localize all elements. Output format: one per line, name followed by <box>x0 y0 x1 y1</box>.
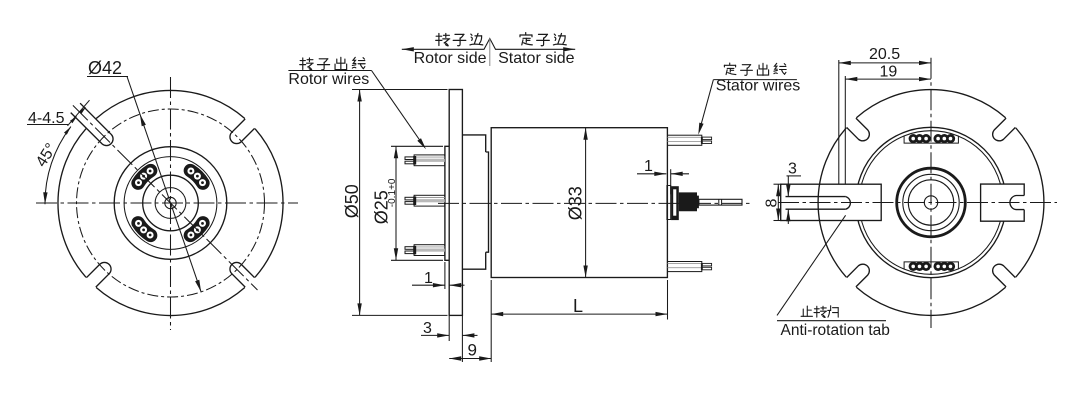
stator body circle &#216;33 <box>856 127 1006 277</box>
svg-text:3: 3 <box>423 320 432 337</box>
label dingzichuxian (stator wires CJK) <box>724 63 735 74</box>
rotor wire terminal group (135&#176;) <box>138 171 151 184</box>
shaft plug <box>699 199 742 205</box>
flange plate (side) <box>449 90 462 316</box>
center hole <box>924 196 937 209</box>
dimension &#216;42 leader and diameter line <box>127 77 201 292</box>
label dingzibian (stator side CJK) <box>520 33 532 45</box>
svg-text:4-4.5: 4-4.5 <box>28 110 65 127</box>
svg-text:19: 19 <box>880 64 898 81</box>
svg-text:L: L <box>573 296 583 316</box>
dimension 3 (slot width) <box>787 175 802 177</box>
svg-text:20.5: 20.5 <box>869 46 900 63</box>
label zhuanzibian (rotor side CJK) <box>436 34 450 46</box>
svg-text:Ø33: Ø33 <box>566 186 586 220</box>
insulation washer (1mm) <box>667 186 671 220</box>
label zhizhuanpian (anti-rotation tab CJK) <box>801 306 812 316</box>
stator notch (225&#176;) <box>847 264 870 287</box>
dimension 1 (boss protrusion) <box>444 262 446 289</box>
svg-text:Ø42: Ø42 <box>88 58 122 78</box>
rotor wire connector (y=160.3) <box>405 155 445 166</box>
stator terminal strip (bottom) <box>904 262 958 271</box>
svg-text:Stator wires: Stator wires <box>716 78 800 95</box>
rotor hub circles <box>114 147 227 260</box>
stator notch (135&#176;) <box>847 118 870 141</box>
anti-rotation tab leader <box>777 215 846 315</box>
stator body <box>491 128 667 278</box>
angular dimension 45&#176; arc <box>45 127 71 205</box>
boss right of flange <box>462 135 485 269</box>
dimension &#216;25 +0/-0.1 <box>391 145 443 147</box>
stator connector rings <box>671 186 679 220</box>
divider line <box>489 39 491 67</box>
stator notch (315&#176;) <box>993 264 1016 287</box>
svg-text:1: 1 <box>424 270 433 287</box>
rotor wire terminal group (315&#176;) <box>190 223 203 236</box>
stator wire bundle (y=135.2) <box>668 135 712 145</box>
stator wires leader <box>713 79 797 81</box>
dimension &#216;50 <box>352 89 448 91</box>
dimension L <box>667 280 669 320</box>
rotor side / stator side arrows <box>402 39 575 50</box>
svg-text:3: 3 <box>788 161 797 178</box>
flange mounting notch (315&#176;) <box>230 262 255 287</box>
step ring <box>486 152 489 252</box>
dimension &#216;33 <box>585 128 587 278</box>
flange mounting notch (45&#176;) <box>230 119 255 144</box>
rotor wire connector (y=200.7) <box>405 195 445 206</box>
svg-text:Ø50: Ø50 <box>342 184 362 218</box>
svg-text:Rotor wires: Rotor wires <box>288 71 369 88</box>
right view horizontal centerline <box>778 202 1057 204</box>
rotor flange outer circle <box>58 90 283 315</box>
svg-text:+0: +0 <box>387 178 398 190</box>
connector hub <box>679 192 699 211</box>
horizontal centerline <box>36 202 298 204</box>
stator outer circle <box>818 90 1044 316</box>
dimension 19 <box>844 76 846 184</box>
svg-text:9: 9 <box>468 341 477 360</box>
dimension 8 (tab width) <box>774 183 783 185</box>
right tab slot <box>1010 196 1024 210</box>
center hole <box>165 197 176 208</box>
dimension 4-4.5 (slot width) <box>27 124 68 126</box>
svg-text:Stator side: Stator side <box>498 50 575 67</box>
flange mounting notch (225&#176;) <box>86 262 111 287</box>
left anti-rotation tab <box>781 184 882 220</box>
flange mounting slot 4-4.5 (135&#176;) <box>71 103 113 145</box>
right view vertical centerline <box>930 58 932 328</box>
dimension 9 <box>490 280 492 362</box>
vertical centerline <box>170 77 172 330</box>
side view centerline <box>438 202 750 204</box>
stator notch (45&#176;) <box>993 118 1016 141</box>
rotor wire terminal group (225&#176;) <box>138 223 151 236</box>
rotor wire connector (y=250.1) <box>405 245 445 256</box>
svg-text:8: 8 <box>764 199 781 208</box>
45&#176; datum centerline <box>73 105 258 290</box>
dimension 20.5 <box>838 60 840 184</box>
label zhuanzichuxian (rotor wires CJK) <box>300 58 313 70</box>
stator wire bundle (y=261.5) <box>668 262 712 272</box>
dimension 3 (flange thickness) <box>448 315 450 341</box>
left tab slot <box>786 197 846 210</box>
dimension 1 (washer) <box>670 169 672 194</box>
rotor wire terminal group (45&#176;) <box>190 171 203 184</box>
center boss rings <box>897 168 966 237</box>
svg-text:Anti-rotation tab: Anti-rotation tab <box>781 322 890 339</box>
svg-text:Rotor side: Rotor side <box>414 50 487 67</box>
svg-text:1: 1 <box>644 158 653 175</box>
svg-text:-0.1: -0.1 <box>387 190 398 208</box>
rotor wires leader <box>288 70 371 72</box>
rotor boss protruding left of flange <box>445 146 449 260</box>
right tab <box>981 184 1025 221</box>
bolt circle &#216;42 (dashed) <box>77 109 265 297</box>
stator terminal strip (top) <box>904 134 958 143</box>
